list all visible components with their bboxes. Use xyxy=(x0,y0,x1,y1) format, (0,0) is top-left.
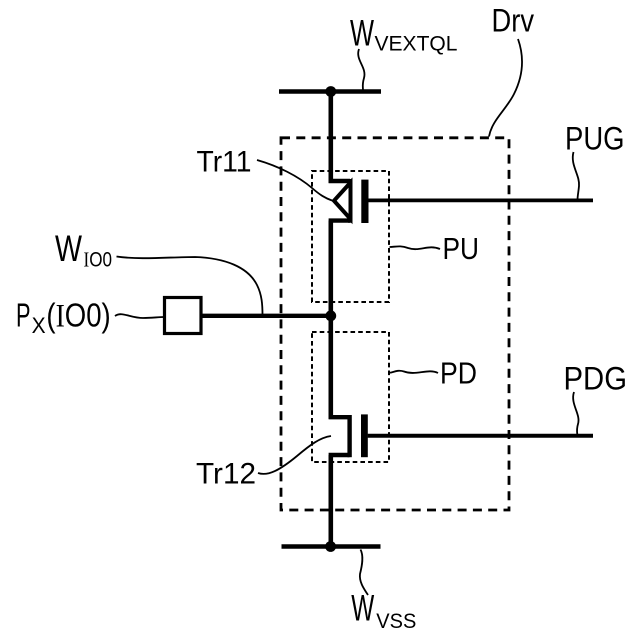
leader line from W_VSS to bottom rail xyxy=(360,550,368,596)
leader line from PU to PU box xyxy=(390,246,441,249)
svg-text:PD: PD xyxy=(440,356,477,391)
leader line from PUG to gate wire xyxy=(573,152,579,200)
wire: top power rail (W_VEXTQL) xyxy=(279,89,381,94)
svg-text:X: X xyxy=(32,313,46,338)
transistor Tr11: bottom drain stub xyxy=(329,218,350,222)
dashed box: driver block Drv xyxy=(281,138,509,510)
node: junction dot on top rail xyxy=(325,86,336,97)
svg-text:(IO0): (IO0) xyxy=(46,297,110,335)
leader line from Tr12 to transistor xyxy=(258,436,331,474)
svg-text:PUG: PUG xyxy=(565,121,625,157)
leader line from PD to PD box xyxy=(390,371,438,373)
leader line from W_IO0 to input wire xyxy=(117,257,263,316)
svg-text:P: P xyxy=(16,297,31,334)
transistor Tr11: arrow triangle (p-channel) xyxy=(334,183,351,220)
dashed box: PU block xyxy=(312,171,389,302)
leader line from P_X(IO0) to terminal square xyxy=(115,314,164,318)
svg-text:Tr11: Tr11 xyxy=(197,145,252,178)
transistor Q Tr11 (PMOS): top source stub xyxy=(329,179,350,183)
terminal square P_X(IO0) xyxy=(165,298,202,334)
wire: Tr12 gate to PDG xyxy=(368,434,593,438)
svg-text:W: W xyxy=(350,13,374,54)
svg-text:PU: PU xyxy=(443,231,480,266)
svg-text:IO0: IO0 xyxy=(84,247,113,271)
svg-text:Tr12: Tr12 xyxy=(196,458,256,491)
wire: Tr11 gate to PUG xyxy=(368,198,593,202)
wire: vertical from top rail to Tr11 source xyxy=(328,92,333,184)
svg-text:W: W xyxy=(55,228,82,269)
transistor Q Tr12 (NMOS): top drain stub xyxy=(329,415,350,419)
label W_VSS xyxy=(351,588,416,633)
transistor Tr12: bottom source stub xyxy=(329,453,350,457)
node: center junction dot (IO node) xyxy=(325,310,336,321)
label W_IO0 xyxy=(55,228,112,271)
wire: vertical from center node to Tr12 drain xyxy=(328,316,333,419)
node: junction dot on bottom rail xyxy=(325,541,336,552)
wire: bottom power rail (W_VSS) xyxy=(282,544,381,549)
leader line from Drv to dashed driver box xyxy=(489,39,522,137)
transistor Tr12: gate bar xyxy=(361,414,368,457)
wire: vertical from Tr11 drain to center node xyxy=(328,221,333,316)
dashed box: PD block xyxy=(312,332,389,462)
leader line from Tr11 to transistor xyxy=(257,160,332,201)
leader line from W_VEXTQL to top rail xyxy=(358,49,364,90)
svg-text:VSS: VSS xyxy=(376,610,416,633)
svg-text:W: W xyxy=(351,588,374,629)
svg-text:Drv: Drv xyxy=(492,2,535,38)
wire: vertical from Tr12 source to bottom rail xyxy=(328,455,333,547)
leader line from PDG to gate wire xyxy=(573,392,578,435)
label W_VEXTQL xyxy=(350,13,458,56)
transistor Tr11: gate bar xyxy=(361,180,368,223)
svg-text:PDG: PDG xyxy=(564,361,628,397)
wire: from terminal square to center node xyxy=(201,314,333,318)
svg-text:VEXTQL: VEXTQL xyxy=(375,31,458,55)
transistor Tr12: channel bar xyxy=(347,415,351,457)
transistor Tr11: channel bar xyxy=(348,179,352,223)
